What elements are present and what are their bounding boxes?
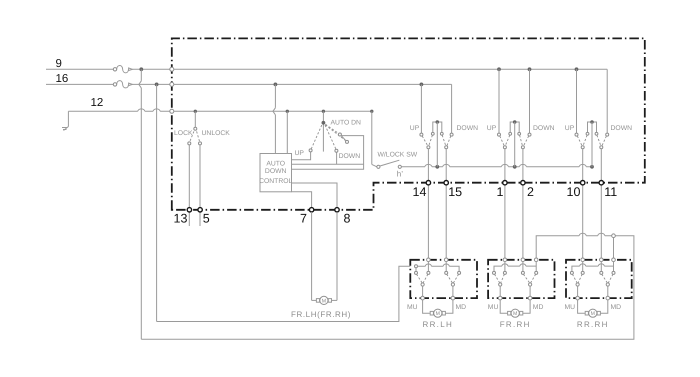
svg-text:13: 13	[174, 212, 188, 226]
box3 movable stems	[578, 286, 608, 298]
svg-text:MU: MU	[565, 304, 576, 311]
box1 bypass wiring	[416, 264, 459, 271]
pin 16 on border	[170, 82, 174, 86]
motor RR_LH	[423, 300, 453, 317]
node busB tap on 16	[155, 83, 159, 87]
ground	[62, 127, 68, 131]
connector on busA branch	[612, 234, 616, 238]
svg-text:9: 9	[56, 58, 62, 70]
wire control lower to auto loop	[292, 136, 364, 170]
pin 9 on border	[170, 67, 174, 71]
common rail from lock switch	[401, 166, 592, 168]
motor FR_LH	[312, 296, 337, 304]
wire s2 up feed	[498, 69, 500, 133]
node rail to section3 common	[590, 165, 594, 169]
box2 inner contact stems	[505, 262, 523, 272]
pin box3 right	[600, 258, 604, 262]
auto-dn rocker switch	[309, 111, 348, 152]
wire s2 left to terminal 1	[504, 149, 506, 260]
terminal 14	[426, 181, 430, 185]
wire 12 horizontal with crossover bumps	[68, 110, 170, 112]
terminal 10	[581, 181, 585, 185]
box1 bypass connector	[415, 265, 418, 268]
rail bump over stem 15	[443, 164, 450, 166]
wire busB vertical	[156, 84, 158, 321]
box1 movable stems	[423, 286, 453, 298]
wire terminal 7 to FR motor	[311, 212, 313, 300]
wire unlock contact to terminal 5	[199, 145, 201, 226]
wire control to down/auto node	[292, 163, 364, 165]
crossover bump busA over 12	[138, 109, 145, 111]
svg-text:DOWN: DOWN	[457, 125, 479, 132]
wire ground drop	[67, 111, 69, 126]
pin box1 left	[427, 258, 431, 262]
pin box2 left	[503, 258, 507, 262]
svg-text:MU: MU	[488, 304, 499, 311]
svg-text:M: M	[322, 298, 326, 304]
motor FR_RH	[500, 300, 530, 317]
svg-text:UP: UP	[565, 125, 575, 132]
svg-text:AUTO: AUTO	[266, 161, 285, 168]
pin box3 left	[581, 258, 585, 262]
svg-text:RR.LH: RR.LH	[423, 320, 454, 329]
svg-text:11: 11	[604, 185, 617, 199]
pin box1 right	[444, 258, 448, 262]
switch RR-RH section s3	[575, 120, 609, 167]
svg-text:LOCK: LOCK	[174, 130, 193, 137]
sub switch box RR_LH border	[410, 260, 477, 298]
crossover bump busB over 12	[153, 109, 160, 111]
svg-text:12: 12	[91, 97, 104, 109]
wire s3 up feed	[576, 69, 578, 133]
svg-text:AUTO DN: AUTO DN	[331, 120, 362, 127]
svg-text:FR.LH(FR.RH): FR.LH(FR.RH)	[291, 310, 351, 319]
node s3 up tap on 9	[575, 67, 579, 71]
box2 movable stems	[500, 286, 530, 298]
node tap 16 to control	[274, 83, 278, 87]
node rail to section2 common	[513, 165, 517, 169]
rail bump over stem 2	[519, 164, 526, 166]
svg-text:5: 5	[203, 212, 210, 226]
svg-text:M: M	[436, 311, 440, 317]
switch FR section s1	[420, 120, 453, 167]
svg-text:15: 15	[448, 185, 462, 199]
pin box1 MU	[421, 296, 425, 300]
pin box2 MU	[498, 296, 502, 300]
box1 contacts	[415, 271, 461, 274]
wire 9 inside box	[174, 68, 607, 70]
wire busA branch to box3	[613, 238, 615, 260]
rail bump over stem 10	[579, 164, 586, 166]
wire control to terminal 8	[292, 183, 338, 210]
sub switch box FR_RH border	[488, 260, 554, 298]
wire s3 right to terminal 11	[600, 149, 602, 260]
wire 9 feed	[46, 68, 113, 70]
svg-text:2: 2	[527, 185, 534, 199]
terminal 8	[335, 208, 339, 212]
svg-text:MD: MD	[533, 304, 544, 311]
wire lock contact to terminal 13	[188, 145, 190, 226]
svg-text:DOWN: DOWN	[611, 125, 633, 132]
node rocker tap on 12	[322, 110, 325, 113]
svg-text:8: 8	[344, 212, 351, 226]
fuse F1	[113, 66, 132, 73]
wire s3 left to terminal 10	[582, 149, 584, 260]
node rail to section1 common	[435, 165, 439, 169]
terminal 1	[503, 181, 507, 185]
box2 switch blades	[495, 274, 536, 286]
wire s1 down feed	[451, 84, 453, 133]
svg-text:DOWN: DOWN	[533, 125, 555, 132]
svg-text:DOWN: DOWN	[265, 168, 287, 175]
pin box2 MD	[528, 296, 532, 300]
box2 contacts	[493, 271, 538, 274]
terminal 11	[599, 181, 603, 185]
terminal 7	[309, 208, 313, 212]
box3 bypass wiring	[572, 262, 614, 272]
pin box3 MD	[606, 296, 610, 300]
wire busA vertical	[139, 69, 142, 339]
node lock switch tap on 12	[194, 110, 197, 113]
lock/unlock switch	[188, 111, 202, 145]
switch FR-RH section s2	[498, 120, 532, 167]
svg-text:UP: UP	[410, 125, 420, 132]
wire terminal 8 to FR motor	[336, 212, 338, 300]
fuse F2	[113, 81, 132, 88]
svg-text:UP: UP	[295, 150, 305, 157]
node s2 up tap on 9	[497, 67, 501, 71]
wire control to terminal 7	[292, 192, 312, 210]
node busA tap on 9	[139, 67, 143, 71]
wire s1 right to terminal 15	[445, 149, 447, 260]
svg-text:M: M	[513, 311, 517, 317]
node s2 down tap on 9	[528, 67, 532, 71]
auto down control box U1	[260, 154, 292, 192]
svg-text:RR.RH: RR.RH	[577, 320, 609, 329]
svg-text:UNLOCK: UNLOCK	[202, 130, 231, 137]
wire s2 right to terminal 2	[522, 149, 524, 260]
terminal 13	[187, 208, 191, 212]
svg-text:UP: UP	[487, 125, 497, 132]
svg-text:14: 14	[413, 185, 427, 199]
sub switch box RR_RH border	[566, 260, 632, 298]
terminal 5	[198, 208, 202, 212]
svg-text:16: 16	[56, 73, 69, 85]
busA bump over wire 10	[579, 233, 586, 235]
busA bump over wire 11	[598, 233, 605, 235]
wire 16 feed	[46, 83, 113, 85]
pin box1 MD	[451, 296, 455, 300]
node tap 12 to control	[286, 110, 289, 113]
box3 contacts	[570, 271, 615, 274]
wire s1 up feed	[420, 84, 422, 133]
svg-text:MD: MD	[456, 304, 467, 311]
box1 switch blades	[417, 274, 459, 286]
svg-text:MU: MU	[407, 304, 418, 311]
svg-text:CONTROL: CONTROL	[259, 178, 292, 185]
svg-text:M: M	[591, 311, 595, 317]
pin box2 bypass	[534, 258, 538, 262]
master switch enclosure dash-dot border	[172, 38, 645, 209]
wire busB bottom run	[157, 266, 411, 321]
svg-text:h’: h’	[397, 170, 403, 179]
svg-text:FR.RH: FR.RH	[500, 320, 531, 329]
wire busA top run with bumps	[536, 236, 612, 260]
node s1 up tap on 16	[420, 83, 424, 87]
wire control to UP contact	[292, 152, 311, 160]
wire 16 tap down to control box	[273, 84, 276, 153]
svg-text:1: 1	[497, 185, 504, 199]
terminal 15	[444, 181, 448, 185]
box2 bypass wiring	[494, 262, 536, 272]
wire 16 to box	[132, 83, 170, 85]
pin box3 MU	[576, 296, 580, 300]
motor RR_RH	[578, 300, 608, 317]
box1 inner contact stems	[428, 262, 446, 272]
window lock switch	[377, 160, 402, 168]
wire busA bottom run	[141, 236, 634, 340]
pin 12 on border	[170, 109, 174, 113]
wire 12 tap down to control box	[286, 111, 288, 153]
rail bump over stem 14	[425, 164, 432, 166]
wire 12 inside box	[174, 110, 372, 112]
wire 16 inside box	[174, 83, 452, 85]
pin box3 bypass	[612, 258, 616, 262]
svg-text:10: 10	[567, 185, 581, 199]
rail bump over stem 1	[501, 164, 508, 166]
svg-text:W/LOCK SW: W/LOCK SW	[378, 152, 418, 159]
svg-text:MD: MD	[611, 304, 622, 311]
wire wlock riser	[372, 111, 377, 167]
wire s1 left to terminal 14	[427, 149, 429, 260]
svg-text:DOWN: DOWN	[339, 153, 361, 160]
svg-text:7: 7	[300, 212, 307, 226]
pin box2 right	[521, 258, 525, 262]
wire down contact stem	[336, 152, 338, 164]
wire s3 down feed	[606, 69, 608, 133]
box3 inner contact stems	[583, 262, 602, 272]
wire 9 to box	[132, 68, 170, 70]
wire s2 down feed	[529, 69, 531, 133]
node wlock end of 12	[370, 110, 373, 113]
terminal 2	[521, 181, 525, 185]
box3 switch blades	[572, 274, 613, 286]
